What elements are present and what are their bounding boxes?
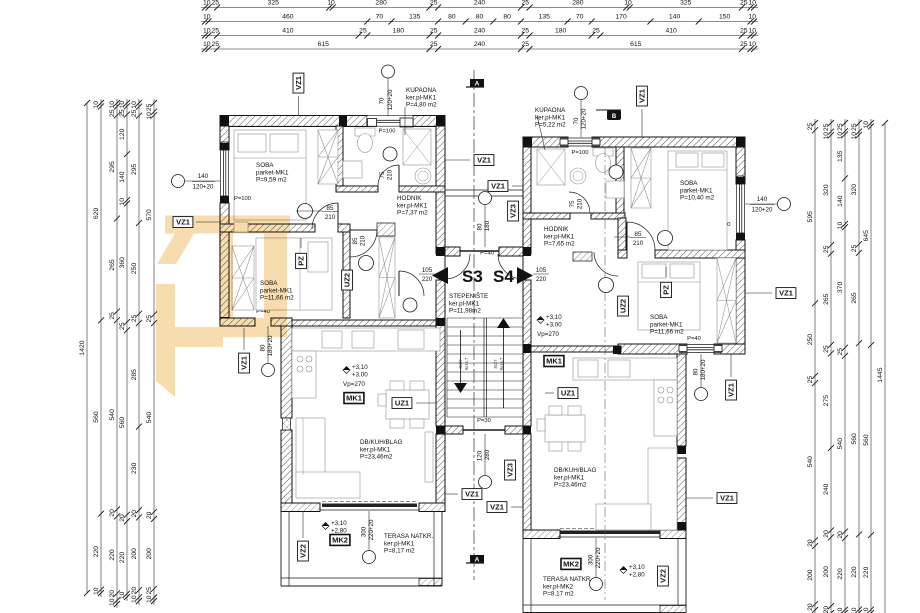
svg-text:MK2: MK2: [563, 560, 579, 569]
svg-text:220+20: 220+20: [368, 519, 375, 540]
tag VZ3 below stair: [505, 460, 516, 480]
svg-text:265: 265: [823, 293, 830, 305]
svg-text:+3,10: +3,10: [629, 564, 645, 571]
label stepeniste: [449, 291, 488, 315]
dimension chain right D: [851, 119, 862, 613]
svg-text:PZ: PZ: [662, 285, 671, 295]
svg-text:ker.pl-MK2: ker.pl-MK2: [543, 583, 574, 590]
svg-text:295: 295: [131, 163, 138, 175]
wardrobe soba2 left-apt: [232, 246, 254, 310]
dash line right apt axis: [604, 147, 606, 600]
dimension chain top row 1: [201, 0, 758, 11]
wall left-apt top east part: [413, 116, 445, 127]
jamb blocks right-apt lower east: [677, 446, 686, 530]
svg-text:10: 10: [131, 101, 138, 109]
svg-text:10: 10: [748, 41, 756, 48]
tag VZ1 lower right-apt: [717, 493, 737, 504]
tag VZ1 stair east: [488, 181, 508, 192]
door arc bath left-apt: [378, 165, 399, 186]
svg-text:+3,10: +3,10: [331, 520, 347, 527]
wardrobe soba2 right-apt: [717, 258, 736, 343]
svg-text:S3: S3: [462, 267, 483, 286]
wall left-apt bath/hodnik west part: [336, 186, 378, 192]
knob circle soba1 left-apt: [298, 204, 313, 219]
level marker right-apt living: [537, 314, 562, 329]
svg-text:10: 10: [93, 587, 100, 595]
svg-text:25: 25: [211, 0, 219, 6]
svg-text:25: 25: [211, 41, 219, 48]
wall left-apt soba1/bath: [336, 126, 343, 192]
svg-text:SOBA: SOBA: [650, 314, 668, 321]
svg-text:VZ1: VZ1: [491, 182, 505, 191]
tag VZ1 top right-apt: [637, 86, 648, 106]
svg-text:+2,80: +2,80: [331, 528, 347, 535]
svg-text:SOBA: SOBA: [260, 280, 278, 287]
svg-text:20: 20: [119, 514, 126, 522]
tag UZ2 right-apt: [618, 296, 629, 316]
svg-text:595: 595: [807, 211, 814, 223]
svg-text:Vp=270: Vp=270: [343, 381, 365, 388]
section flag B: [596, 110, 621, 120]
svg-text:25: 25: [146, 315, 153, 323]
svg-text:70: 70: [379, 97, 386, 104]
svg-text:85: 85: [327, 205, 334, 212]
door arc lower right-apt: [594, 252, 618, 276]
opening dim stair entry 80/180: [477, 192, 492, 248]
svg-text:180: 180: [484, 220, 491, 231]
wardrobe soba1 right-apt: [631, 148, 651, 208]
knob circle lower right-apt: [599, 278, 614, 293]
svg-text:P=40: P=40: [687, 336, 701, 342]
svg-text:120+20: 120+20: [581, 108, 588, 129]
svg-text:10: 10: [203, 27, 211, 34]
wall stairwell top west: [445, 247, 460, 256]
stair treads: [447, 318, 523, 417]
dimension chain top row 2: [201, 13, 758, 24]
svg-text:10: 10: [146, 112, 153, 120]
jambs left-apt west: [220, 143, 229, 326]
svg-text:P=23,46m2: P=23,46m2: [360, 454, 393, 461]
svg-text:210: 210: [633, 240, 644, 247]
terrace left-apt west wall: [281, 511, 289, 586]
tag VZ1 below soba2 left-apt: [239, 353, 250, 373]
svg-text:VZ1: VZ1: [176, 218, 190, 227]
entry door arc left-apt: [445, 254, 470, 279]
svg-text:10: 10: [851, 607, 858, 613]
label kupaona left-apt: [406, 87, 437, 109]
svg-text:80: 80: [477, 223, 484, 230]
section flag bottom: [466, 555, 484, 564]
svg-text:220: 220: [109, 549, 116, 561]
svg-text:25: 25: [430, 27, 438, 34]
bed soba1 right-apt: [668, 151, 727, 250]
svg-text:180+20: 180+20: [267, 335, 274, 356]
wall left-apt bottom east block: [419, 503, 445, 512]
svg-text:220: 220: [422, 276, 433, 283]
svg-text:25: 25: [430, 41, 438, 48]
dimension chain right B: [823, 119, 834, 613]
knob circle hall right-apt: [609, 165, 623, 179]
svg-text:25: 25: [109, 312, 116, 320]
wall left-apt east mid: [436, 280, 445, 426]
wall left-apt lower west lower: [281, 430, 292, 503]
svg-text:80: 80: [693, 368, 700, 375]
knob circle soba2-door right-apt: [658, 231, 673, 246]
window P=100 right-apt top: [560, 138, 600, 146]
svg-text:80: 80: [476, 13, 484, 20]
dining table left-apt: [378, 381, 429, 428]
svg-text:20: 20: [146, 511, 153, 519]
svg-text:360: 360: [119, 257, 126, 269]
terrace left-apt bottom wall: [281, 578, 442, 586]
label terasa right-apt: [543, 576, 592, 598]
svg-text:540: 540: [146, 412, 153, 424]
wall left-apt bath/hodnik east part: [399, 186, 445, 192]
svg-text:250: 250: [807, 334, 814, 346]
svg-text:VZ1: VZ1: [465, 490, 479, 499]
sofa right-apt: [596, 448, 677, 530]
svg-text:PZ: PZ: [297, 256, 306, 266]
svg-text:20: 20: [823, 606, 830, 613]
svg-text:VZ3: VZ3: [509, 204, 518, 218]
svg-text:615: 615: [318, 41, 330, 48]
svg-text:KUPAONA: KUPAONA: [535, 107, 566, 114]
dimension chain right A: [807, 119, 818, 613]
svg-text:10: 10: [837, 607, 844, 613]
svg-text:20: 20: [807, 539, 814, 547]
wall stairwell bottom west: [445, 426, 463, 434]
svg-text:325: 325: [680, 0, 692, 6]
svg-text:10: 10: [851, 132, 858, 140]
door dim 105/220 S4: [533, 267, 549, 283]
svg-text:P=30: P=30: [477, 418, 491, 424]
wall stairwell bottom east: [505, 426, 523, 434]
jambs right-apt west: [523, 247, 531, 538]
svg-text:10: 10: [327, 0, 335, 6]
svg-text:KUPAONA: KUPAONA: [406, 87, 437, 94]
svg-text:S4: S4: [493, 267, 514, 286]
svg-text:10: 10: [863, 121, 870, 129]
opening dim left-apt door 80/180+20: [260, 326, 275, 377]
jambs right-apt top: [523, 137, 745, 147]
svg-text:VZ1: VZ1: [779, 289, 793, 298]
svg-text:10: 10: [119, 591, 126, 599]
wall right-apt top west part: [523, 137, 568, 147]
tag VZ1 below stair west: [462, 489, 482, 500]
tag VZ1 top left-apt: [293, 73, 304, 93]
svg-text:parket-MK1: parket-MK1: [256, 169, 289, 176]
svg-text:540: 540: [807, 456, 814, 468]
door dim 85/210 soba1 left-apt: [296, 205, 338, 221]
door dim 85/210 lower right-apt: [0, 0, 1, 1]
svg-text:220: 220: [851, 566, 858, 578]
label hodnik left-apt: [397, 195, 428, 217]
svg-text:120: 120: [119, 128, 126, 140]
svg-text:25: 25: [823, 123, 830, 131]
svg-text:220: 220: [863, 566, 870, 578]
svg-text:10: 10: [203, 13, 211, 20]
wall right-apt soba2 top west part: [618, 250, 627, 258]
opening dim left-apt west 140/120+20: [172, 173, 221, 191]
svg-text:P=8,17 m2: P=8,17 m2: [384, 548, 415, 555]
svg-text:25: 25: [119, 322, 126, 330]
tag VZ1 below soba2 right-apt: [726, 380, 737, 400]
svg-text:20: 20: [837, 531, 844, 539]
svg-text:P=100: P=100: [379, 129, 396, 135]
svg-text:STEPENIŠTE: STEPENIŠTE: [449, 291, 488, 300]
level marker right-apt terrace: [620, 564, 645, 579]
svg-text:120+20: 120+20: [193, 184, 214, 191]
svg-text:20: 20: [109, 590, 116, 598]
svg-text:10: 10: [837, 132, 844, 140]
wall right-apt lower east lower: [677, 458, 686, 530]
svg-text:280: 280: [484, 449, 491, 460]
svg-text:P=7,65 m2: P=7,65 m2: [544, 241, 575, 248]
svg-text:UZ2: UZ2: [619, 299, 628, 313]
wall right-apt east lower: [736, 240, 745, 354]
svg-text:135: 135: [539, 13, 551, 20]
svg-text:210: 210: [577, 198, 584, 209]
svg-text:+2,80: +2,80: [629, 572, 645, 579]
svg-text:135: 135: [409, 13, 421, 20]
label kupaona right-apt: [535, 107, 566, 129]
dimension chain top row 3: [201, 27, 758, 38]
wall left-apt west lower: [220, 203, 229, 326]
svg-text:120: 120: [477, 450, 484, 461]
svg-text:10: 10: [748, 27, 756, 34]
svg-text:140: 140: [757, 196, 768, 203]
svg-text:280: 280: [572, 0, 584, 6]
svg-text:210: 210: [325, 214, 336, 221]
wall left-apt east upper: [436, 126, 445, 254]
svg-text:10: 10: [624, 0, 632, 6]
svg-text:VZ1: VZ1: [477, 156, 491, 165]
svg-text:320: 320: [851, 184, 858, 196]
svg-text:P=11,66 m2: P=11,66 m2: [650, 329, 684, 336]
svg-text:1445: 1445: [877, 367, 884, 382]
svg-text:25: 25: [521, 41, 529, 48]
svg-text:parket-MK1: parket-MK1: [650, 321, 683, 328]
wall right-apt soba2 bottom west: [618, 344, 687, 354]
svg-text:410: 410: [282, 27, 294, 34]
svg-text:25: 25: [851, 244, 858, 252]
label soba1 right-apt: [680, 180, 715, 202]
svg-text:370: 370: [837, 282, 844, 294]
label dnevni left-apt: [360, 439, 402, 461]
wall left-apt soba2 bottom east: [271, 318, 292, 326]
tag VZ2 left-apt: [298, 541, 309, 561]
svg-text:parket-MK1: parket-MK1: [260, 287, 293, 294]
svg-text:ker.pl-MK1: ker.pl-MK1: [384, 540, 415, 547]
svg-text:180: 180: [555, 27, 567, 34]
svg-text:620: 620: [93, 208, 100, 220]
wall right-apt west mid: [523, 280, 531, 426]
svg-text:560: 560: [119, 417, 126, 429]
wall right-apt bath/soba1: [616, 147, 624, 213]
svg-text:25: 25: [146, 103, 153, 111]
section line vertical: [473, 70, 475, 580]
svg-text:10: 10: [837, 222, 844, 230]
svg-text:10: 10: [119, 101, 126, 109]
svg-text:25: 25: [521, 0, 529, 6]
svg-text:20: 20: [807, 603, 814, 611]
svg-text:25: 25: [131, 109, 138, 117]
apartment marker S3: [432, 267, 483, 286]
svg-text:240: 240: [474, 0, 486, 6]
svg-text:320: 320: [823, 184, 830, 196]
svg-text:A: A: [475, 81, 480, 88]
svg-text:P=4,80 m2: P=4,80 m2: [406, 102, 437, 109]
svg-text:140: 140: [119, 171, 126, 183]
svg-text:10: 10: [748, 13, 756, 20]
svg-text:10: 10: [93, 101, 100, 109]
svg-text:ker.pl-MK1: ker.pl-MK1: [397, 202, 428, 209]
bed soba2 left-apt: [256, 238, 332, 310]
tag VZ1 east right-apt: [776, 288, 796, 299]
svg-text:10: 10: [203, 41, 211, 48]
svg-text:25: 25: [823, 245, 830, 253]
left apartment outer walls: [0, 0, 1, 1]
svg-text:+3,10: +3,10: [352, 364, 368, 371]
svg-text:P=11,98m2: P=11,98m2: [449, 308, 481, 315]
svg-text:VZ1: VZ1: [294, 76, 303, 90]
svg-text:DB/KUH/BLAG: DB/KUH/BLAG: [360, 439, 402, 446]
tag MK2 left-apt: [330, 535, 350, 546]
tag MK1 right-apt: [544, 356, 564, 367]
dimension chain top row 4: [201, 41, 758, 52]
svg-text:250: 250: [131, 263, 138, 275]
svg-text:300: 300: [588, 554, 595, 565]
svg-text:VZ1: VZ1: [727, 383, 736, 397]
svg-text:200: 200: [131, 548, 138, 560]
svg-text:85: 85: [635, 231, 642, 238]
svg-text:140: 140: [837, 195, 844, 207]
svg-text:SOBA: SOBA: [256, 162, 274, 169]
svg-text:80: 80: [260, 344, 267, 351]
svg-text:UZ1: UZ1: [561, 389, 575, 398]
svg-text:180+20: 180+20: [700, 359, 707, 380]
tag VZ3 stair: [508, 201, 519, 221]
kitchen left-apt: [292, 328, 440, 398]
svg-text:10: 10: [823, 132, 830, 140]
door arc hodnik-soba2 left-apt: [350, 230, 377, 257]
svg-text:220: 220: [119, 552, 126, 564]
window right-apt east: [737, 176, 745, 241]
terrace right-apt west wall: [523, 538, 531, 613]
svg-text:10: 10: [748, 0, 756, 6]
door arc soba2 right-apt: [627, 222, 655, 250]
wall right-apt bottom west block: [523, 530, 560, 539]
level marker left-apt terrace: [322, 520, 347, 535]
svg-text:A: A: [475, 557, 480, 564]
svg-text:VZ1: VZ1: [240, 356, 249, 370]
label soba1 left-apt: [256, 162, 289, 184]
svg-text:200: 200: [807, 569, 814, 581]
svg-text:VZ1: VZ1: [720, 494, 734, 503]
svg-text:ker.pl-MK1: ker.pl-MK1: [544, 233, 575, 240]
svg-text:80: 80: [503, 13, 511, 20]
knob circle soba2-door left-apt: [359, 256, 374, 271]
svg-text:25: 25: [740, 27, 748, 34]
svg-text:25: 25: [146, 587, 153, 595]
svg-text:HODNIK: HODNIK: [397, 195, 422, 202]
leader kupaona left-apt: [404, 107, 406, 135]
wall right-apt lower top part: [531, 346, 621, 352]
wall right-apt top east part: [592, 137, 745, 147]
tag MK2 right-apt: [561, 559, 581, 570]
svg-text:ker.pl-MK1: ker.pl-MK1: [406, 94, 437, 101]
watermark logo orange: [156, 216, 290, 398]
wall right-apt lower east upper: [677, 354, 686, 446]
svg-text:140: 140: [669, 13, 681, 20]
tag UZ1 right-apt: [558, 388, 578, 399]
svg-text:20: 20: [131, 510, 138, 518]
wall left-apt soba2/hodnik: [343, 232, 350, 318]
svg-text:210: 210: [360, 235, 367, 246]
svg-text:265: 265: [109, 259, 116, 271]
stair top door leaf: [460, 250, 499, 252]
svg-text:10: 10: [203, 0, 211, 6]
wall left-apt east lower: [436, 434, 445, 511]
opening dim right terrace 300/220+20: [588, 538, 603, 591]
stair bottom door leaf: [463, 429, 505, 431]
svg-text:280: 280: [375, 0, 387, 6]
wall left-apt west upper: [220, 126, 229, 150]
wall right-apt west upper: [523, 147, 531, 254]
svg-text:560: 560: [863, 434, 870, 446]
svg-text:+3,10: +3,10: [546, 314, 562, 321]
svg-text:HODNIK: HODNIK: [544, 226, 569, 233]
svg-text:VZ1: VZ1: [638, 89, 647, 103]
svg-text:615: 615: [630, 41, 642, 48]
wall right-apt west lower: [523, 434, 531, 534]
svg-text:120+20: 120+20: [387, 89, 394, 110]
svg-text:10: 10: [131, 595, 138, 603]
terrace left-apt east wall: [434, 511, 442, 586]
svg-text:25: 25: [430, 0, 438, 6]
svg-text:ker.pl-MK1: ker.pl-MK1: [554, 474, 585, 481]
wall right-apt soba2 top east part: [655, 250, 745, 258]
svg-text:540: 540: [837, 438, 844, 450]
jambs left-apt top corners: [220, 116, 445, 127]
kitchen right-apt: [573, 358, 677, 436]
svg-text:9x16,7: 9x16,7: [464, 357, 469, 370]
svg-text:240: 240: [474, 41, 486, 48]
dimension chain left E: [146, 99, 157, 605]
opening dim stair door 120/280: [477, 434, 492, 489]
window P=100 left-apt top: [220, 116, 445, 127]
label dnevni right-apt: [554, 467, 596, 489]
wall right-apt bath/hodnik east: [591, 213, 625, 219]
door dim 75/210 left-apt: [379, 163, 394, 187]
dimension chain left C: [119, 99, 130, 601]
apartment marker S4: [493, 267, 533, 286]
knob circle hodnik left-apt: [383, 147, 397, 161]
svg-text:ker.pl-MK1: ker.pl-MK1: [535, 114, 566, 121]
wall right-apt bath/hodnik west: [523, 213, 570, 219]
svg-text:VZ2: VZ2: [659, 569, 668, 583]
stair arrow up: [497, 318, 510, 328]
label hodnik right-apt: [544, 226, 575, 248]
svg-text:75: 75: [569, 200, 576, 207]
svg-text:645: 645: [863, 230, 870, 242]
sliding door 300/220+20 left-apt: [320, 502, 419, 511]
door dim 85/210 hodnik left-apt: [352, 235, 367, 246]
svg-text:P=8,17 m2: P=8,17 m2: [543, 591, 574, 598]
svg-text:9x16,7: 9x16,7: [499, 357, 504, 370]
tag UZ1 left-apt: [392, 398, 412, 409]
svg-text:ker.pl-MK1: ker.pl-MK1: [449, 300, 480, 307]
